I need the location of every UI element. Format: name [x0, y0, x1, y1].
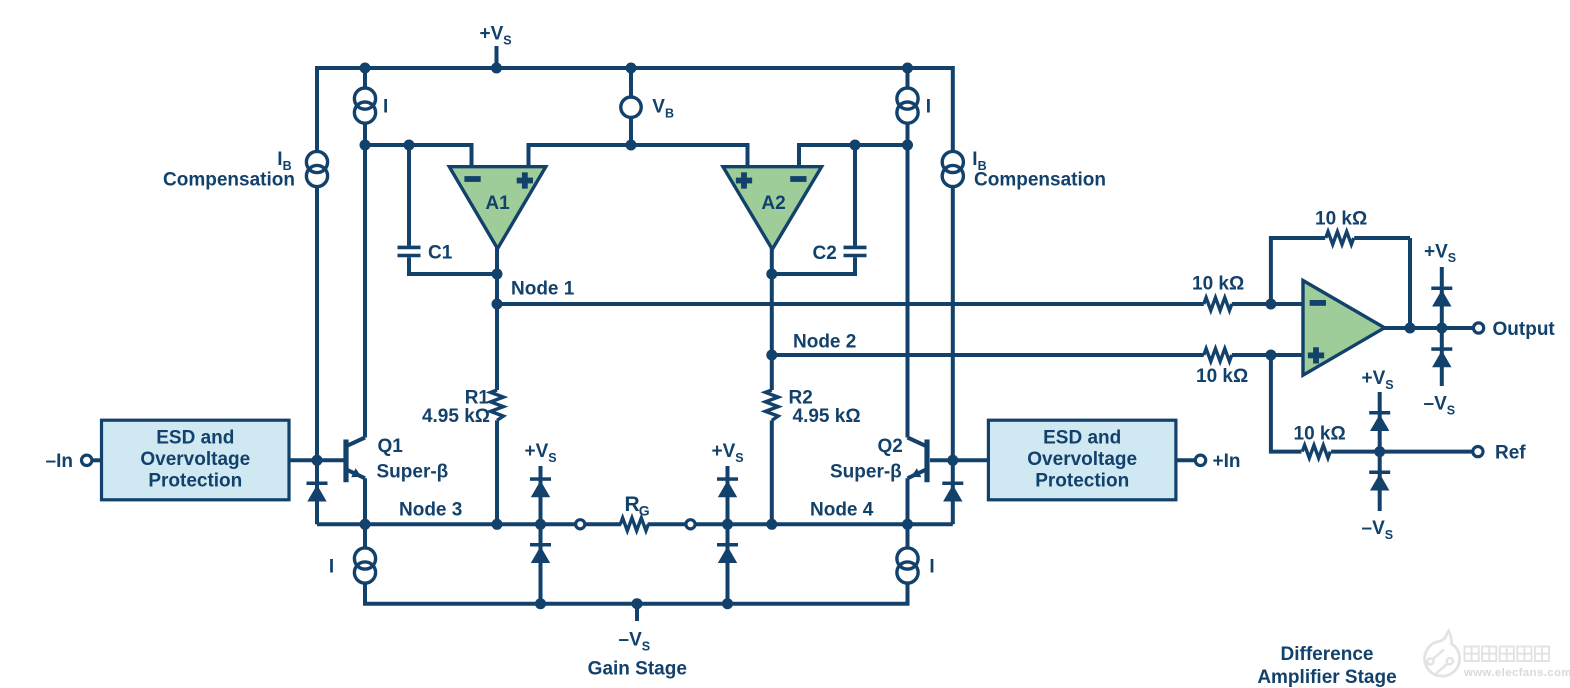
svg-text:A1: A1: [485, 193, 510, 214]
svg-text:Node 1: Node 1: [511, 279, 575, 300]
svg-text:–In: –In: [46, 451, 73, 472]
svg-text:10 kΩ: 10 kΩ: [1192, 273, 1244, 294]
svg-text:Super-β: Super-β: [377, 461, 449, 482]
svg-text:+VS: +VS: [1424, 241, 1456, 265]
svg-text:Node 4: Node 4: [810, 499, 874, 520]
svg-text:Overvoltage: Overvoltage: [140, 449, 250, 470]
svg-text:I: I: [329, 556, 334, 577]
svg-text:I: I: [929, 556, 934, 577]
svg-text:+VS: +VS: [712, 441, 744, 465]
svg-text:VB: VB: [652, 96, 674, 120]
svg-text:Compensation: Compensation: [163, 169, 295, 190]
svg-text:C2: C2: [813, 243, 837, 264]
svg-text:–VS: –VS: [1362, 518, 1394, 542]
svg-text:Compensation: Compensation: [974, 169, 1106, 190]
svg-text:+VS: +VS: [525, 441, 557, 465]
svg-text:Node 2: Node 2: [793, 331, 856, 352]
svg-text:Gain Stage: Gain Stage: [588, 658, 687, 679]
svg-text:10 kΩ: 10 kΩ: [1294, 424, 1346, 445]
svg-text:ESD and: ESD and: [1043, 427, 1121, 448]
svg-text:G: G: [639, 502, 650, 518]
svg-text:10 kΩ: 10 kΩ: [1315, 209, 1367, 230]
svg-text:I: I: [383, 97, 388, 118]
svg-text:A2: A2: [761, 193, 785, 214]
svg-text:Protection: Protection: [1035, 470, 1129, 491]
svg-text:www.elecfans.com: www.elecfans.com: [1463, 667, 1570, 679]
svg-text:Protection: Protection: [148, 470, 242, 491]
svg-text:Overvoltage: Overvoltage: [1027, 449, 1137, 470]
svg-text:+VS: +VS: [480, 24, 512, 48]
svg-text:Difference: Difference: [1281, 644, 1374, 665]
svg-text:Output: Output: [1493, 319, 1556, 340]
svg-text:+In: +In: [1213, 451, 1241, 472]
svg-text:ESD and: ESD and: [156, 427, 234, 448]
svg-text:Amplifier Stage: Amplifier Stage: [1257, 667, 1396, 688]
svg-text:R: R: [625, 493, 640, 516]
svg-text:I: I: [926, 97, 931, 118]
svg-text:4.95 kΩ: 4.95 kΩ: [793, 406, 861, 427]
svg-text:Node 3: Node 3: [399, 499, 462, 520]
svg-text:–VS: –VS: [619, 629, 651, 653]
svg-text:+VS: +VS: [1362, 368, 1394, 392]
svg-text:Q2: Q2: [878, 436, 903, 457]
svg-text:Ref: Ref: [1495, 442, 1526, 463]
svg-text:10 kΩ: 10 kΩ: [1196, 366, 1248, 387]
svg-text:4.95 kΩ: 4.95 kΩ: [422, 406, 490, 427]
svg-text:Q1: Q1: [378, 436, 404, 457]
svg-text:Super-β: Super-β: [830, 461, 902, 482]
svg-text:–VS: –VS: [1424, 393, 1456, 417]
svg-text:C1: C1: [428, 242, 453, 263]
